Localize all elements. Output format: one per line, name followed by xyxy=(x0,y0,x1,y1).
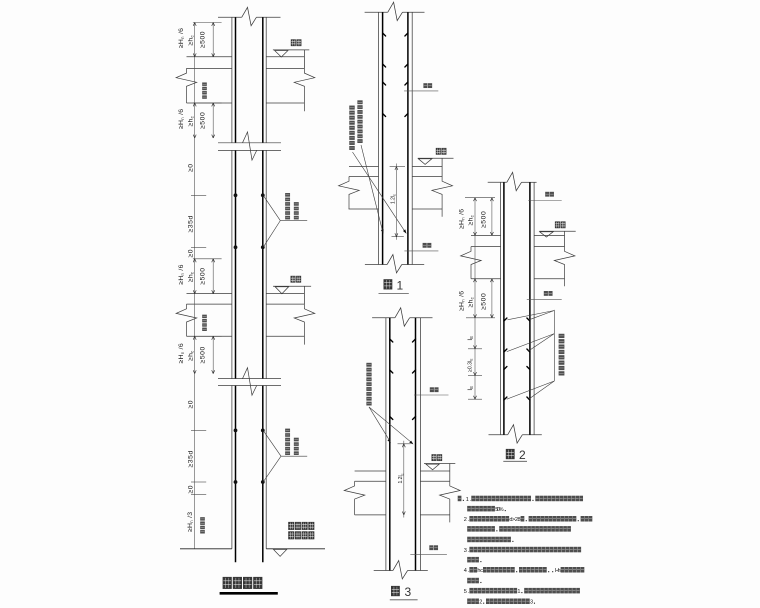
fig2 dimension chain xyxy=(465,198,495,400)
fig3: top break line xyxy=(372,308,432,326)
fig2 title xyxy=(506,448,526,462)
svg-text:≥0: ≥0 xyxy=(188,163,195,172)
dim 500 line xyxy=(212,259,214,294)
fig3 left web break xyxy=(344,481,365,515)
fig2 floor junction xyxy=(471,235,501,278)
svg-text:≥hc: ≥hc xyxy=(187,35,194,46)
fig1 right web break xyxy=(432,177,453,217)
fig1 floor level line xyxy=(418,157,454,159)
zone boundary tick xyxy=(193,22,222,24)
fig3 right web break xyxy=(440,481,461,522)
svg-text:≥500: ≥500 xyxy=(199,267,206,284)
svg-text:≥500: ≥500 xyxy=(199,31,206,48)
fig2 floor level line xyxy=(539,230,575,232)
fig1 leader lines with arrows to bar ends xyxy=(353,145,407,234)
svg-text:hc: hc xyxy=(477,568,483,574)
fig1 left web break xyxy=(339,177,360,210)
fig2 left web break xyxy=(461,247,482,279)
fig1 label loumian xyxy=(436,148,441,155)
fig3: bottom break line xyxy=(374,561,428,579)
floor level line xyxy=(273,285,311,287)
svg-text:3: 3 xyxy=(530,600,533,606)
svg-text:1.2lE: 1.2lE xyxy=(398,473,404,483)
fig3 right beam end edge xyxy=(449,464,451,482)
fig2 label loumian xyxy=(555,221,560,228)
svg-text:2: 2 xyxy=(519,448,526,462)
svg-text:1: 1 xyxy=(517,589,520,595)
fig2: column edge lines xyxy=(501,182,534,434)
floor slab left lines xyxy=(187,57,232,103)
svg-text:≥0: ≥0 xyxy=(188,400,195,409)
left detail: mid column break 1 xyxy=(218,132,281,160)
left detail: column edge lines xyxy=(232,17,266,549)
labels >=Hn/6 >=hc >=500 (rotated) xyxy=(178,343,207,363)
leader lines to weld dots xyxy=(264,431,308,482)
svg-text:≥Hn /6: ≥Hn /6 xyxy=(178,28,185,48)
fig3 anchorage dim 1.2lE xyxy=(398,441,411,518)
svg-text:Hn: Hn xyxy=(555,568,561,574)
svg-text:≥hc: ≥hc xyxy=(187,272,194,283)
fig2: top break line xyxy=(488,172,537,190)
svg-text:≥Hn /6: ≥Hn /6 xyxy=(458,209,465,229)
svg-text:≥hc: ≥hc xyxy=(467,297,474,308)
dimension chain line xyxy=(194,23,196,549)
fig1: column edge lines xyxy=(379,12,413,264)
floor level triangle mark xyxy=(275,51,288,58)
svg-text:≥500: ≥500 xyxy=(480,293,487,310)
labels non-connection zone (rotated) xyxy=(200,82,207,533)
foundation level triangle xyxy=(273,549,286,556)
labels >=Hn/6 >=hc >=500 (rotated) xyxy=(178,109,207,129)
svg-text:≥500: ≥500 xyxy=(199,346,206,363)
svg-text:d>28: d>28 xyxy=(509,517,520,523)
fig1: top break line xyxy=(365,2,425,20)
svg-text:≥hc: ≥hc xyxy=(187,116,194,127)
label foundation top / embedment (2 lines) xyxy=(288,522,314,539)
svg-text:≥hc: ≥hc xyxy=(187,350,194,361)
floor slab right lines xyxy=(266,57,304,103)
svg-text:lE: lE xyxy=(467,386,474,391)
right beam end edge xyxy=(303,286,305,304)
svg-text:≥0.3lE: ≥0.3lE xyxy=(467,358,473,372)
left detail: mid column break 2 xyxy=(218,368,281,396)
svg-text:≥Hn /6: ≥Hn /6 xyxy=(178,109,185,129)
svg-text:≥35d: ≥35d xyxy=(188,215,195,232)
svg-text:3.: 3. xyxy=(464,548,470,554)
fig1 label upper column + underline xyxy=(423,83,427,88)
left detail: longitudinal rebars (thick) xyxy=(236,17,263,562)
zone boundary tick xyxy=(193,258,222,260)
fig2 label upper column + underline xyxy=(545,192,549,197)
fig1 floor junction xyxy=(349,167,379,209)
svg-text:≥500: ≥500 xyxy=(480,211,487,228)
floor level line xyxy=(273,49,309,51)
svg-text:5.: 5. xyxy=(464,589,470,595)
label loumian (floor) xyxy=(291,276,296,283)
fig1: bottom break line xyxy=(365,255,424,273)
svg-text:4.: 4. xyxy=(464,568,470,574)
fig2 right web break xyxy=(554,247,575,287)
label loumian (floor) xyxy=(291,39,296,46)
svg-text:2: 2 xyxy=(479,600,482,606)
fig3 label upper column + underline xyxy=(430,387,434,392)
foundation top line left part xyxy=(180,548,232,550)
fig2 zone labels lower (rotated) xyxy=(458,291,487,311)
fig1: rebars xyxy=(383,12,408,264)
fig2 right beam end edge xyxy=(564,231,566,246)
right beam web break xyxy=(294,68,315,111)
fig1 title xyxy=(384,278,404,292)
dim arrows xyxy=(193,23,215,57)
floor slab right lines xyxy=(266,294,304,337)
dim 500 line xyxy=(212,23,214,57)
fig3: weld ticks xyxy=(390,339,416,420)
fig1 right beam end edge xyxy=(441,158,443,176)
right beam end edge xyxy=(303,50,305,69)
leader lines to weld dots xyxy=(264,196,308,247)
left detail: column top break line xyxy=(218,7,281,25)
svg-text:≥35d: ≥35d xyxy=(188,450,195,467)
title welded lap splice xyxy=(223,577,232,589)
fig3 right slab lines xyxy=(420,471,449,515)
fig3 title xyxy=(391,585,412,599)
svg-text:1: 1 xyxy=(397,278,404,292)
svg-text:≥Hn /6: ≥Hn /6 xyxy=(178,343,185,363)
fig2 right slab lines xyxy=(534,235,564,278)
label adjacent bars welded connection (rotated) xyxy=(285,193,299,219)
dim 500 line xyxy=(212,336,214,373)
zone boundary tick xyxy=(193,102,222,104)
fig2 zone labels upper (rotated) xyxy=(458,209,487,229)
svg-text:lE: lE xyxy=(467,336,474,341)
fig3: rebars xyxy=(390,318,416,571)
svg-text:1.: 1. xyxy=(466,497,472,503)
svg-text:2.: 2. xyxy=(464,517,470,523)
fig3 leader lines with arrows to bar ends xyxy=(369,407,413,444)
fig1 anchorage dim 1.2lE xyxy=(390,164,405,240)
notes block text xyxy=(458,496,593,606)
svg-text:3: 3 xyxy=(405,585,412,599)
fig1 floor triangle xyxy=(418,159,431,165)
fig2 label lower column + underline xyxy=(544,291,548,296)
fig3: column edge lines xyxy=(386,318,421,571)
title underline thick xyxy=(220,592,278,595)
svg-text:50%: 50% xyxy=(495,507,503,513)
dim arrows xyxy=(193,103,215,138)
fig2 leader spine and fans xyxy=(507,310,555,400)
fig3 rotated note label xyxy=(366,402,371,406)
svg-text:1.2lE: 1.2lE xyxy=(390,194,396,204)
labels >=Hn/6 >=hc >=500 (rotated) xyxy=(178,28,207,48)
svg-text:≥Hn /6: ≥Hn /6 xyxy=(458,291,465,311)
fig3 floor junction xyxy=(355,471,386,515)
foundation top line right part xyxy=(266,548,325,550)
left beam web break xyxy=(176,304,197,336)
fig2 lap dim labels lE / 0.3lE / lE (rotated) xyxy=(467,336,474,391)
dim 500 line xyxy=(212,103,214,138)
fig1 rotated note labels (2 columns) xyxy=(349,100,362,150)
floor slab left lines xyxy=(187,294,232,337)
svg-text:≥hc: ≥hc xyxy=(467,215,474,226)
floor level triangle mark xyxy=(275,287,288,294)
fig2 rotated label larger-diameter upper bars xyxy=(559,371,565,375)
left detail: weld splice dots xyxy=(234,193,238,197)
fig2: bottom break line xyxy=(489,425,542,443)
fig1 title underline xyxy=(379,293,409,295)
right beam web break xyxy=(294,304,315,345)
zone boundary tick xyxy=(193,335,222,337)
dim arrows xyxy=(193,259,215,294)
fig2 floor triangle xyxy=(540,232,553,237)
fig3 label loumian xyxy=(432,454,437,461)
fig2 title underline xyxy=(503,460,527,462)
fig3 title underline xyxy=(390,599,418,601)
label adjacent bars welded connection (rotated) xyxy=(285,429,299,455)
svg-text:≥500: ≥500 xyxy=(199,112,206,129)
left beam web break xyxy=(176,68,197,103)
fig1 label lower column + underline xyxy=(423,243,427,248)
segment ticks at weld dot levels xyxy=(191,195,206,494)
fig3 floor level line xyxy=(424,463,455,465)
dim arrows xyxy=(193,336,215,373)
svg-text:≥Hn /3: ≥Hn /3 xyxy=(187,512,194,532)
fig2: weld ticks xyxy=(504,318,530,400)
fig1 right slab lines xyxy=(412,167,442,209)
fig2: rebars xyxy=(504,182,530,434)
fig1: weld ticks xyxy=(383,33,408,117)
svg-text:≥0: ≥0 xyxy=(188,485,195,494)
labels >=Hn/6 >=hc >=500 (rotated) xyxy=(178,264,207,284)
svg-text:≥Hn /6: ≥Hn /6 xyxy=(178,264,185,284)
fig3 floor triangle xyxy=(426,464,439,470)
fig3 label lower column + underline xyxy=(429,545,433,550)
svg-text:≥0: ≥0 xyxy=(188,249,195,258)
